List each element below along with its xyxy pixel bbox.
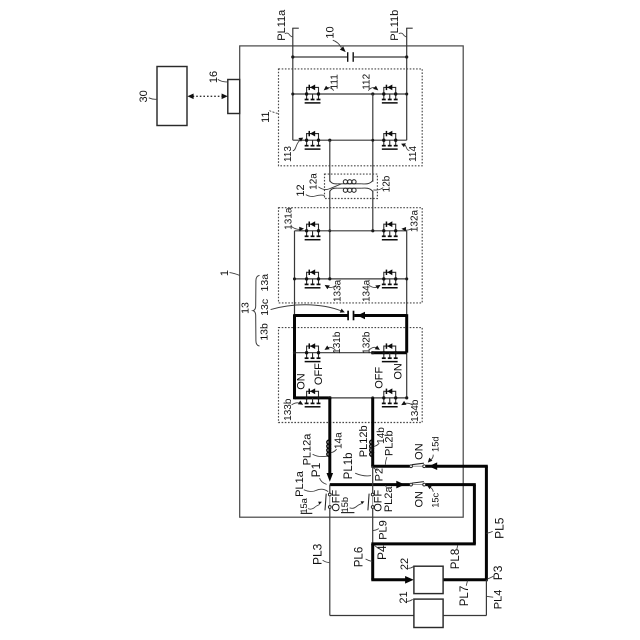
- svg-text:ON: ON: [393, 363, 405, 380]
- svg-text:111: 111: [329, 74, 340, 90]
- label PL8: [450, 545, 462, 569]
- svg-text:P3: P3: [491, 565, 505, 580]
- label PL7: [459, 581, 471, 607]
- svg-text:133b: 133b: [283, 398, 294, 421]
- svg-text:P1: P1: [309, 462, 323, 477]
- svg-text:PL12a: PL12a: [302, 433, 314, 466]
- thick right rail 13b upper: [405, 314, 408, 353]
- label 131a: [283, 207, 304, 231]
- current arrow right on 15c line: [396, 481, 405, 489]
- svg-text:PL4: PL4: [493, 590, 505, 610]
- current arrow left on 15d line: [429, 462, 438, 470]
- svg-text:13a: 13a: [259, 274, 271, 292]
- thin wire PL4 vertical below P3: [485, 580, 487, 616]
- wire secondary right down to row3: [372, 191, 374, 231]
- label OFF 134b: [374, 367, 386, 389]
- label 15a: [299, 497, 322, 513]
- transformer primary winding 12a: [330, 180, 373, 184]
- transistor 111: [305, 85, 321, 103]
- transistor 131b: [305, 343, 321, 361]
- svg-text:15a: 15a: [299, 497, 309, 513]
- label 12b: [374, 175, 393, 192]
- inductor 14b: [370, 440, 373, 456]
- thin wire P2 down to switch 15b: [372, 466, 374, 493]
- label PL9: [373, 520, 390, 540]
- label 14b: [374, 427, 387, 447]
- label 21: [398, 591, 413, 603]
- node B1 dot on row2: [328, 139, 331, 142]
- svg-text:131a: 131a: [283, 207, 294, 230]
- thick wire node B3 down to P1: [328, 398, 331, 475]
- node B3 dot on row6: [328, 396, 331, 399]
- svg-text:OFF: OFF: [330, 490, 342, 512]
- wire row6 thin right part: [330, 397, 407, 399]
- capacitor 10: [348, 52, 354, 62]
- terminal PL11a: [276, 9, 299, 41]
- transistor 134b: [382, 388, 398, 406]
- svg-text:12a: 12a: [309, 173, 320, 190]
- label 13c: [259, 299, 345, 316]
- switch 15d: [410, 463, 426, 467]
- junction dot left rail row1: [291, 92, 294, 95]
- label P4: [374, 545, 389, 560]
- wire bridge11 row1: [293, 93, 407, 95]
- transistor 133a: [305, 269, 321, 287]
- thin wire 15a down (PL3): [329, 509, 331, 616]
- label OFF 131b: [313, 363, 325, 385]
- label OFF 15a: [330, 490, 342, 512]
- label 114: [401, 143, 419, 162]
- label 113: [283, 138, 303, 162]
- label 13a: [259, 274, 271, 292]
- label group 13 with brace: [240, 302, 252, 314]
- label P1: [309, 462, 327, 484]
- dotted double arrow between 30 and 16: [187, 94, 227, 100]
- svg-text:113: 113: [283, 146, 294, 162]
- power converter outer box 1: [240, 46, 464, 517]
- svg-text:PL9: PL9: [378, 520, 390, 540]
- junction dot PL11b-cap10: [405, 55, 408, 58]
- label ON 132b: [393, 363, 405, 380]
- transformer secondary winding 12b: [330, 188, 373, 192]
- label PL5: [486, 517, 506, 539]
- label PL4: [487, 590, 505, 610]
- capacitor 13c: [348, 311, 353, 321]
- svg-text:PL12b: PL12b: [358, 425, 370, 457]
- svg-text:P2: P2: [373, 468, 385, 481]
- svg-text:134a: 134a: [362, 279, 373, 302]
- dashed box 13a (second bridge): [279, 208, 423, 303]
- box 22: [414, 566, 443, 593]
- thick wire node A3 down to P2: [371, 398, 374, 466]
- node A1 dot on row1: [371, 92, 374, 95]
- thick wire P2 to PL5 via switch 15d: [371, 465, 488, 468]
- label 132b: [361, 331, 380, 354]
- label 15c: [427, 485, 440, 508]
- label ON 15c: [414, 491, 426, 508]
- capacitor 10 wire: [293, 56, 407, 58]
- label 13b: [259, 323, 271, 341]
- thin wire P1 down to switch 15a: [329, 485, 331, 493]
- label 133b: [283, 398, 303, 421]
- transistor 112: [382, 85, 398, 103]
- inductor 14a: [327, 440, 330, 456]
- wire bridge11 row2: [293, 139, 407, 141]
- wire left rail 13a down to cap 13c: [294, 231, 296, 316]
- label 15b: [340, 497, 364, 513]
- transistor 133b: [305, 388, 321, 406]
- thin wire PL3 to battery 21: [330, 615, 414, 617]
- label ON 15d: [414, 443, 426, 460]
- svg-text:ON: ON: [414, 491, 426, 508]
- thick wire P3 to box22 right: [443, 578, 488, 581]
- thick wire PL8 vertical from 15c line: [473, 485, 476, 544]
- svg-text:11: 11: [260, 111, 272, 122]
- svg-text:1: 1: [219, 270, 231, 276]
- svg-text:13: 13: [240, 302, 252, 314]
- label P3: [487, 565, 505, 580]
- transistor 131a: [305, 221, 321, 239]
- svg-text:30: 30: [138, 90, 150, 102]
- ECU box 30: [157, 67, 187, 126]
- svg-text:12: 12: [295, 184, 307, 196]
- wire node A1 down to transformer primary: [372, 94, 374, 182]
- thick row6 left part: [295, 396, 332, 399]
- label 133a: [325, 279, 344, 302]
- svg-text:PL7: PL7: [459, 586, 471, 606]
- svg-text:134b: 134b: [410, 399, 421, 422]
- thick wire PL6 vertical P4 down: [371, 544, 374, 580]
- svg-text:131b: 131b: [332, 331, 343, 354]
- svg-text:PL3: PL3: [310, 543, 324, 565]
- svg-text:15c: 15c: [430, 492, 440, 507]
- brace for 13: [253, 275, 260, 346]
- terminal PL11b: [389, 10, 413, 41]
- label 14a: [331, 432, 344, 453]
- label 12a: [309, 173, 342, 190]
- svg-text:133a: 133a: [332, 279, 343, 302]
- transistor 113: [305, 131, 321, 149]
- label 10: [325, 26, 346, 52]
- junction dot PL11a-cap10: [291, 55, 294, 58]
- crossing dot A3 over row6: [371, 396, 374, 399]
- label 1: [219, 270, 240, 276]
- label 16: [208, 71, 228, 83]
- dashed box 13b (third bridge): [279, 328, 423, 423]
- label PL6: [354, 547, 373, 567]
- wire PL11a vertical / left DC rail of bridge 11: [292, 28, 294, 140]
- switch 15a: [325, 493, 331, 510]
- label PL3: [310, 543, 329, 565]
- dashed box 11 (first bridge): [279, 69, 423, 166]
- node B2 dot on row4: [328, 277, 331, 280]
- wire right rail 13a down to cap 13c: [406, 231, 408, 316]
- svg-text:PL6: PL6: [354, 547, 366, 567]
- label ON 133b: [296, 373, 308, 390]
- wire PL11b vertical / right DC rail of bridge 11: [406, 28, 408, 140]
- svg-text:12b: 12b: [382, 175, 393, 192]
- thick row5 right part: [371, 351, 406, 354]
- svg-text:10: 10: [325, 26, 337, 38]
- communication unit box 16: [228, 80, 240, 114]
- box 21: [414, 599, 443, 627]
- label 30: [138, 90, 157, 102]
- svg-text:PL8: PL8: [450, 549, 462, 569]
- svg-text:132b: 132b: [361, 331, 372, 354]
- svg-text:112: 112: [362, 73, 373, 89]
- svg-text:PL11b: PL11b: [389, 10, 401, 41]
- junction dot left rail row5: [293, 351, 296, 354]
- svg-text:PL1a: PL1a: [294, 470, 306, 497]
- svg-text:OFF: OFF: [313, 363, 325, 385]
- wire row5 thin left part: [295, 352, 373, 354]
- label PL12a: [302, 433, 328, 466]
- capacitor 13c thick wire right: [354, 314, 407, 317]
- label 134a: [362, 279, 381, 302]
- thin wire 15b down to P4 (PL9): [372, 509, 374, 544]
- dashed box 12 (transformer): [325, 174, 378, 198]
- crossing dot B2 over row3: [328, 229, 331, 232]
- label 111: [324, 74, 341, 91]
- crossing dot A1 over row2: [371, 139, 374, 142]
- wire secondary left down to row4: [329, 191, 331, 279]
- node A3 dot on row5: [371, 351, 374, 354]
- svg-text:PL5: PL5: [492, 517, 506, 539]
- thick wire PL6 into box 22 with arrow: [371, 576, 413, 584]
- wire node B1 down to transformer primary: [329, 140, 331, 181]
- thick wire P1 to PL8 corner via switch 15c: [330, 483, 476, 486]
- transistor 134a: [382, 269, 398, 287]
- transistor 132b: [382, 343, 398, 361]
- thick wire PL5 vertical: [485, 466, 488, 580]
- transistor 132a: [382, 221, 398, 239]
- svg-text:21: 21: [398, 591, 410, 603]
- label 12: [295, 184, 325, 196]
- svg-text:PL2b: PL2b: [383, 430, 395, 456]
- label 131b: [325, 331, 344, 354]
- wire bridge13a row3: [295, 230, 407, 232]
- svg-text:PL11a: PL11a: [276, 9, 288, 41]
- thick wire PL8 horizontal to P4: [371, 542, 476, 545]
- thick left rail 13b: [293, 314, 296, 399]
- label 134b: [401, 399, 421, 422]
- label PL12b: [358, 425, 372, 457]
- transistor 114: [382, 131, 398, 149]
- switch 15c: [410, 482, 426, 486]
- label 132a: [401, 209, 420, 232]
- label 112: [362, 73, 379, 90]
- label P2: [373, 468, 385, 482]
- svg-text:13b: 13b: [259, 323, 271, 341]
- svg-text:OFF: OFF: [373, 490, 385, 512]
- svg-text:ON: ON: [296, 373, 308, 390]
- wire bridge13a row4: [295, 278, 407, 280]
- current arrow on 13c wire pointing left: [357, 312, 365, 319]
- label OFF 15b: [373, 490, 385, 512]
- thin wire PL7 to battery 21 right: [443, 615, 486, 617]
- junction dot left rail row4: [293, 277, 296, 280]
- label PL2b: [383, 430, 395, 464]
- switch 15b: [368, 493, 374, 510]
- svg-text:15d: 15d: [430, 436, 440, 452]
- junction dot right rail row6: [405, 396, 408, 399]
- label PL2a: [383, 485, 395, 512]
- svg-text:PL1b: PL1b: [343, 452, 355, 479]
- svg-text:OFF: OFF: [374, 367, 386, 389]
- svg-text:13c: 13c: [259, 299, 271, 316]
- capacitor 13c thick wire left: [295, 314, 348, 317]
- svg-text:114: 114: [408, 145, 419, 161]
- junction dot right rail row4: [405, 277, 408, 280]
- svg-text:ON: ON: [414, 443, 426, 460]
- current arrow down at P1: [327, 473, 334, 482]
- label PL1b: [343, 452, 371, 479]
- label 11: [260, 111, 278, 123]
- label 15d: [428, 436, 441, 462]
- junction dot right rail row1: [405, 92, 408, 95]
- label PL1a: [294, 470, 328, 497]
- svg-text:16: 16: [208, 71, 220, 83]
- svg-text:14a: 14a: [333, 432, 344, 449]
- node A2 dot on row3: [371, 229, 374, 232]
- thin right rail 13b lower: [406, 353, 408, 398]
- label 22: [399, 558, 414, 570]
